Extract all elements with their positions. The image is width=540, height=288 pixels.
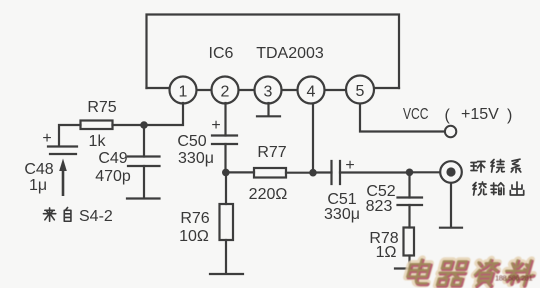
wire C50 to node B xyxy=(224,144,226,172)
node B junction dot xyxy=(222,169,230,177)
resistor R76 xyxy=(220,204,234,240)
wire pin1 to node A xyxy=(144,103,183,125)
label 统输出 (line 2) xyxy=(473,182,524,195)
resistor R78 xyxy=(404,228,415,256)
svg-text:1μ: 1μ xyxy=(29,177,47,194)
svg-text:823: 823 xyxy=(366,198,393,215)
svg-text:R77: R77 xyxy=(257,144,286,161)
capacitor C49 xyxy=(128,125,160,198)
node C junction dot xyxy=(309,169,317,177)
label 环绕系 (line 1) xyxy=(471,159,521,172)
capacitor C50 xyxy=(211,117,237,144)
wire R76 to ground bar xyxy=(225,240,227,273)
wire R78 to ground bar xyxy=(408,256,410,269)
svg-text:C50: C50 xyxy=(177,133,206,150)
svg-text:): ) xyxy=(507,107,512,124)
terminal bar below output xyxy=(440,227,462,229)
wire pin3 to ground xyxy=(267,103,269,116)
wire R77 to node C xyxy=(286,172,313,174)
capacitor C48 xyxy=(42,130,77,154)
wire pin5 to VCC terminal xyxy=(360,104,445,132)
wire pin2 to C50 xyxy=(224,103,226,136)
watermark 电器资料 xyxy=(405,259,538,286)
svg-text:S4-2: S4-2 xyxy=(79,208,113,225)
pin 3 xyxy=(255,77,282,104)
resistor R77 xyxy=(254,168,286,178)
pin 4 xyxy=(298,77,325,104)
svg-text:R76: R76 xyxy=(180,210,209,227)
pin 1 xyxy=(170,77,197,104)
node A junction dot xyxy=(140,121,148,129)
svg-text:188.586.281: 188.586.281 xyxy=(495,274,533,283)
svg-text:C48: C48 xyxy=(24,161,53,178)
svg-text:330μ: 330μ xyxy=(178,150,214,167)
wire C51 to node D xyxy=(340,171,410,173)
capacitor C51 xyxy=(332,157,355,184)
terminal bar below R78 xyxy=(395,267,423,269)
svg-text:10Ω: 10Ω xyxy=(179,228,209,245)
svg-text:4: 4 xyxy=(307,84,316,101)
svg-text:3: 3 xyxy=(264,84,273,101)
label VCC ( +15V ) xyxy=(403,106,512,124)
svg-text:1: 1 xyxy=(179,84,188,101)
svg-text:+15V: +15V xyxy=(461,106,499,123)
wire node B to R77 xyxy=(226,171,254,173)
wire node B to R76 xyxy=(225,172,227,204)
svg-text:1k: 1k xyxy=(89,133,107,150)
terminal bar below R76 xyxy=(210,273,243,275)
wire node A to R75 xyxy=(113,124,145,126)
pin 5 xyxy=(346,76,374,104)
resistor R75 xyxy=(81,121,113,130)
ground pin3 xyxy=(257,115,280,117)
wire output terminal to ground bar xyxy=(450,183,452,227)
wire node D to output terminal xyxy=(410,171,441,173)
pin 2 xyxy=(212,77,239,104)
svg-text:+: + xyxy=(42,130,51,147)
svg-text:330μ: 330μ xyxy=(324,206,360,223)
capacitor C52 xyxy=(398,198,423,206)
output terminal circle xyxy=(440,161,462,183)
svg-text:+: + xyxy=(211,117,220,134)
svg-text:220Ω: 220Ω xyxy=(249,186,288,203)
wire R75 to C48 xyxy=(59,125,81,146)
svg-text:VCC: VCC xyxy=(403,106,429,123)
svg-text:TDA2003: TDA2003 xyxy=(256,45,324,62)
svg-text:(: ( xyxy=(445,107,451,124)
svg-text:2: 2 xyxy=(221,84,230,101)
svg-text:5: 5 xyxy=(356,83,365,100)
wire C52 to R78 xyxy=(408,205,410,228)
wire node C to C51 xyxy=(313,171,332,173)
svg-text:470p: 470p xyxy=(95,168,131,185)
op-amp IC body U IC6 TDA2003 xyxy=(147,15,400,89)
svg-text:1Ω: 1Ω xyxy=(376,244,397,261)
svg-text:R75: R75 xyxy=(87,99,116,116)
VCC terminal circle xyxy=(445,126,456,137)
svg-text:C49: C49 xyxy=(98,150,127,167)
wire pin4 to node C xyxy=(312,104,314,173)
svg-text:IC6: IC6 xyxy=(209,45,234,62)
node D junction dot xyxy=(406,169,414,177)
label 来自S4-2 xyxy=(43,207,112,225)
wire node D to C52 xyxy=(408,172,410,197)
arrow input from S4-2 xyxy=(59,159,67,197)
terminal bar below C49 xyxy=(127,197,160,199)
